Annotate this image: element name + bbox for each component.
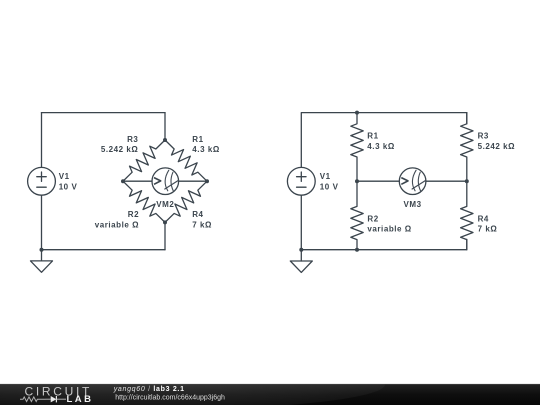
node mid-left node (right)	[355, 179, 359, 183]
wire bottom-left horizontal	[42, 249, 166, 251]
svg-text:R3: R3	[478, 132, 489, 141]
node top junction node (right)	[355, 111, 359, 115]
wire V1 bottom	[41, 195, 43, 250]
svg-text:http://circuitlab.com/c66x4upp: http://circuitlab.com/c66x4upp3j6gh	[115, 394, 225, 401]
svg-text:V1: V1	[320, 172, 331, 181]
svg-text:R2: R2	[128, 210, 139, 219]
node bottom junction node (right)	[355, 248, 359, 252]
svg-text:R1: R1	[192, 135, 203, 144]
svg-text:5.242 kΩ: 5.242 kΩ	[101, 145, 139, 154]
wire bridge bottom stub	[164, 222, 166, 249]
svg-text:variable Ω: variable Ω	[95, 220, 139, 229]
node bridge top node	[163, 138, 167, 142]
wire top horizontal (right circuit)	[301, 113, 467, 168]
svg-text:yangq60 / lab3 2.1: yangq60 / lab3 2.1	[113, 386, 185, 393]
resistor R4 (bridge bottom-right) with label 7 k&#937;	[165, 181, 212, 229]
svg-text:4.3 kΩ: 4.3 kΩ	[367, 142, 395, 151]
logo resistor zigzag	[20, 397, 46, 402]
svg-text:4.3 kΩ: 4.3 kΩ	[192, 145, 220, 154]
logo diode	[51, 396, 57, 402]
wire top-left horizontal	[42, 112, 166, 114]
resistor R3 (right circuit) 5.242 k&#937;	[461, 113, 516, 182]
resistor R2 (bridge bottom-left) with label variable &#937;	[95, 181, 165, 229]
voltage source V1 (left)	[28, 167, 78, 195]
resistor R4 (right circuit) 7 k&#937;	[461, 181, 498, 250]
ground (right circuit)	[290, 250, 312, 273]
resistor R1 (right circuit) 4.3 k&#937;	[351, 113, 395, 182]
svg-text:7 kΩ: 7 kΩ	[192, 220, 212, 229]
svg-text:R1: R1	[367, 132, 378, 141]
resistor R1 (bridge top-right) with label 4.3 k&#937;	[165, 135, 220, 181]
svg-text:V1: V1	[59, 172, 70, 181]
svg-text:LAB: LAB	[67, 394, 94, 405]
node mid-right node (right)	[465, 179, 469, 183]
svg-text:R4: R4	[478, 214, 489, 223]
svg-text:10 V: 10 V	[320, 182, 339, 191]
svg-text:VM2: VM2	[156, 200, 174, 209]
resistor R3 (bridge top-left) with label 5.242 k&#937;	[101, 135, 165, 181]
voltmeter VM3	[357, 168, 467, 209]
voltmeter VM2 (bridge center)	[123, 168, 207, 209]
wire V1 bottom (right)	[300, 195, 302, 250]
wire bottom horizontal (right circuit)	[301, 239, 467, 249]
node bridge left node	[121, 179, 125, 183]
node bridge right node	[205, 179, 209, 183]
wire right vertical top stub	[466, 113, 468, 124]
resistor R2 (right circuit) variable &#937;	[351, 181, 412, 250]
node ground node (right)	[299, 248, 303, 252]
svg-text:R2: R2	[367, 214, 378, 223]
svg-text:R3: R3	[127, 135, 138, 144]
node bridge bottom node	[163, 220, 167, 224]
svg-text:R4: R4	[192, 210, 203, 219]
wire V1 top	[41, 113, 43, 168]
svg-text:VM3: VM3	[404, 200, 422, 209]
wire bridge top stub	[164, 113, 166, 140]
svg-text:5.242 kΩ: 5.242 kΩ	[478, 142, 516, 151]
svg-text:10 V: 10 V	[59, 182, 78, 191]
svg-text:variable Ω: variable Ω	[367, 225, 411, 234]
node ground node (left)	[40, 248, 44, 252]
voltage source V1 (right)	[287, 167, 338, 195]
ground (left circuit)	[31, 250, 53, 273]
svg-text:7 kΩ: 7 kΩ	[478, 225, 498, 234]
